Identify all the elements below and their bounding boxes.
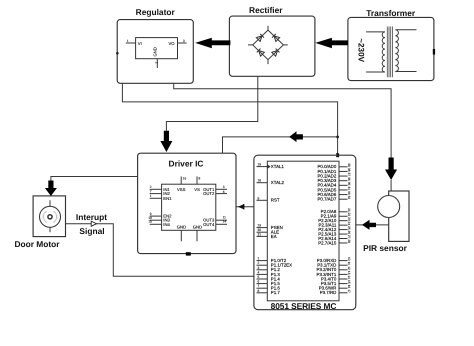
wire arrow tip to PIR box: [390, 180, 392, 191]
svg-text:8: 8: [258, 289, 260, 293]
svg-text:OUT4: OUT4: [203, 222, 215, 227]
svg-text:25: 25: [347, 226, 351, 230]
wire regulator output to driver and 8051: [122, 83, 337, 155]
svg-text:Signal: Signal: [79, 226, 104, 236]
svg-text:2: 2: [155, 62, 159, 64]
8051 left pins: [257, 163, 293, 296]
svg-text:OUT2: OUT2: [203, 191, 215, 196]
driver IC body: [162, 184, 216, 230]
svg-text:Interupt: Interupt: [76, 212, 107, 222]
wire 8051 to driver with arrow: [236, 204, 254, 209]
svg-text:24: 24: [347, 222, 351, 226]
diode D2 top-right: [272, 34, 280, 42]
driver pin OUT4: [203, 220, 227, 227]
svg-text:7: 7: [258, 284, 260, 288]
door motor block: [14, 196, 65, 249]
driver pin IN3: [148, 216, 170, 223]
motor symbol: [40, 200, 61, 232]
svg-text:GND: GND: [177, 224, 186, 229]
driver pin GND left: [177, 224, 186, 241]
svg-text:Driver IC: Driver IC: [169, 159, 204, 169]
svg-text:P1.7: P1.7: [271, 290, 281, 295]
svg-text:27: 27: [347, 235, 351, 239]
transformer core: [387, 27, 392, 78]
rectifier block: [229, 5, 315, 76]
svg-text:PIR sensor: PIR sensor: [363, 243, 407, 253]
diode D1 top-left: [256, 34, 264, 42]
svg-text:VSS: VSS: [177, 187, 186, 192]
driver pin IN4: [148, 220, 170, 227]
svg-text:1: 1: [150, 194, 152, 198]
svg-text:15: 15: [347, 280, 351, 284]
interrupt signal wire: [66, 224, 254, 277]
svg-text:6: 6: [223, 190, 225, 194]
regulator pin 2: [155, 59, 159, 68]
svg-text:23: 23: [347, 217, 351, 221]
arrow down into driver IC: [160, 131, 172, 152]
transformer primary coil: [366, 32, 385, 72]
8051 right pins: [317, 163, 351, 295]
arrow rectifier to regulator: [195, 38, 230, 49]
svg-text:12: 12: [347, 266, 351, 270]
diode D4 bottom-right: [272, 49, 280, 57]
svg-text:16: 16: [183, 176, 187, 180]
transformer secondary coil: [395, 30, 416, 72]
svg-text:4: 4: [258, 270, 260, 274]
regulator pin 3: [178, 39, 187, 43]
svg-text:14: 14: [347, 275, 351, 279]
regulator pin 1: [126, 39, 136, 43]
svg-text:26: 26: [347, 230, 351, 234]
driver pin EN2: [150, 212, 172, 219]
svg-text:31: 31: [258, 232, 262, 236]
driver pin EN1: [150, 194, 172, 201]
svg-text:Transformer: Transformer: [366, 8, 416, 18]
svg-text:11: 11: [223, 215, 227, 219]
driver pin OUT2: [203, 190, 227, 196]
svg-text:19: 19: [258, 163, 262, 167]
svg-text:35: 35: [347, 182, 351, 186]
svg-text:33: 33: [347, 191, 351, 195]
svg-text:3: 3: [183, 39, 185, 43]
transformer block: [348, 8, 434, 81]
svg-text:21: 21: [347, 208, 351, 212]
svg-text:3: 3: [258, 266, 260, 270]
svg-text:22: 22: [347, 213, 351, 217]
svg-text:XTAL2: XTAL2: [271, 180, 285, 185]
svg-text:8051 SERIES MC: 8051 SERIES MC: [271, 301, 337, 311]
svg-text:38: 38: [347, 168, 351, 172]
arrow transformer to rectifier: [315, 38, 348, 49]
wire regulator pin2-side stub to PIR net: [174, 83, 391, 157]
svg-text:6: 6: [258, 280, 260, 284]
junction dot on regulator left edge: [116, 52, 119, 55]
svg-text:GND: GND: [153, 47, 158, 56]
arrowhead on branch pointing to driver: [289, 131, 303, 142]
svg-text:39: 39: [347, 163, 351, 167]
wire driver to door motor: [51, 177, 138, 181]
driver pin VSS 16: [177, 176, 186, 191]
regulator 7805 body: [136, 38, 178, 59]
svg-text:28: 28: [347, 239, 351, 243]
open arrowhead on interrupt wire: [91, 221, 96, 226]
svg-text:17: 17: [347, 289, 351, 293]
svg-text:2: 2: [258, 261, 260, 265]
8051 block: [254, 155, 356, 311]
driver pin IN2: [150, 189, 171, 196]
svg-text:13: 13: [347, 271, 351, 275]
junction nub at 8051 top: [336, 153, 339, 157]
svg-text:RST: RST: [271, 198, 280, 203]
svg-text:10: 10: [347, 257, 351, 261]
driver pin OUT1: [203, 185, 227, 192]
svg-text:29: 29: [258, 224, 262, 228]
PIR sensor block: [363, 191, 409, 253]
svg-text:1: 1: [258, 257, 260, 261]
gnd tick under driver block: [186, 252, 191, 255]
wire branch to driver IC: [223, 137, 338, 153]
svg-text:Door Motor: Door Motor: [14, 239, 60, 249]
svg-text:VI: VI: [138, 41, 142, 46]
svg-text:15: 15: [148, 220, 152, 224]
bridge diamond: [248, 26, 288, 64]
arrow down into PIR sensor: [385, 158, 397, 181]
svg-text:14: 14: [223, 220, 227, 224]
svg-text:IN4: IN4: [163, 222, 170, 227]
arrow down into door motor: [45, 181, 57, 197]
svg-text:EN1: EN1: [163, 196, 172, 201]
driver IC block: [138, 153, 236, 253]
driver pin OUT3: [203, 215, 227, 222]
wire rectifier bottom to driver IC top: [166, 76, 257, 131]
driver pin IN1: [150, 185, 171, 192]
driver pin VS 8: [194, 176, 200, 191]
svg-text:P0.7/AD7: P0.7/AD7: [318, 197, 337, 202]
junction dot: [336, 136, 339, 139]
svg-text:1: 1: [127, 39, 129, 43]
svg-text:XTAL1: XTAL1: [271, 164, 285, 169]
svg-text:11: 11: [347, 262, 351, 266]
svg-text:36: 36: [347, 177, 351, 181]
regulator U2 block: [117, 7, 193, 83]
svg-text:18: 18: [258, 179, 262, 183]
svg-text:8: 8: [199, 176, 201, 180]
svg-text:9: 9: [258, 196, 260, 200]
svg-text:34: 34: [347, 186, 351, 190]
svg-text:32: 32: [347, 196, 351, 200]
svg-text:Regulator: Regulator: [136, 7, 176, 17]
svg-text:3: 3: [223, 185, 225, 189]
svg-text:VO: VO: [169, 41, 176, 46]
driver pin GND right: [193, 224, 202, 241]
svg-text:P3.7/RD: P3.7/RD: [320, 290, 337, 295]
svg-text:EA: EA: [271, 234, 277, 239]
terminal nub on transformer right edge: [433, 49, 435, 55]
svg-text:5: 5: [258, 275, 260, 279]
svg-text:VS: VS: [194, 187, 200, 192]
svg-text:37: 37: [347, 172, 351, 176]
wire PIR to 8051 with arrow: [356, 220, 389, 230]
svg-text:~230V: ~230V: [357, 38, 366, 62]
svg-text:P2.7/A15: P2.7/A15: [318, 240, 337, 245]
diode D3 bottom-left: [257, 49, 265, 57]
svg-text:Rectifier: Rectifier: [249, 5, 283, 15]
svg-text:16: 16: [347, 285, 351, 289]
svg-text:7: 7: [150, 189, 152, 193]
8051 body: [267, 161, 339, 301]
svg-text:GND: GND: [193, 224, 202, 229]
